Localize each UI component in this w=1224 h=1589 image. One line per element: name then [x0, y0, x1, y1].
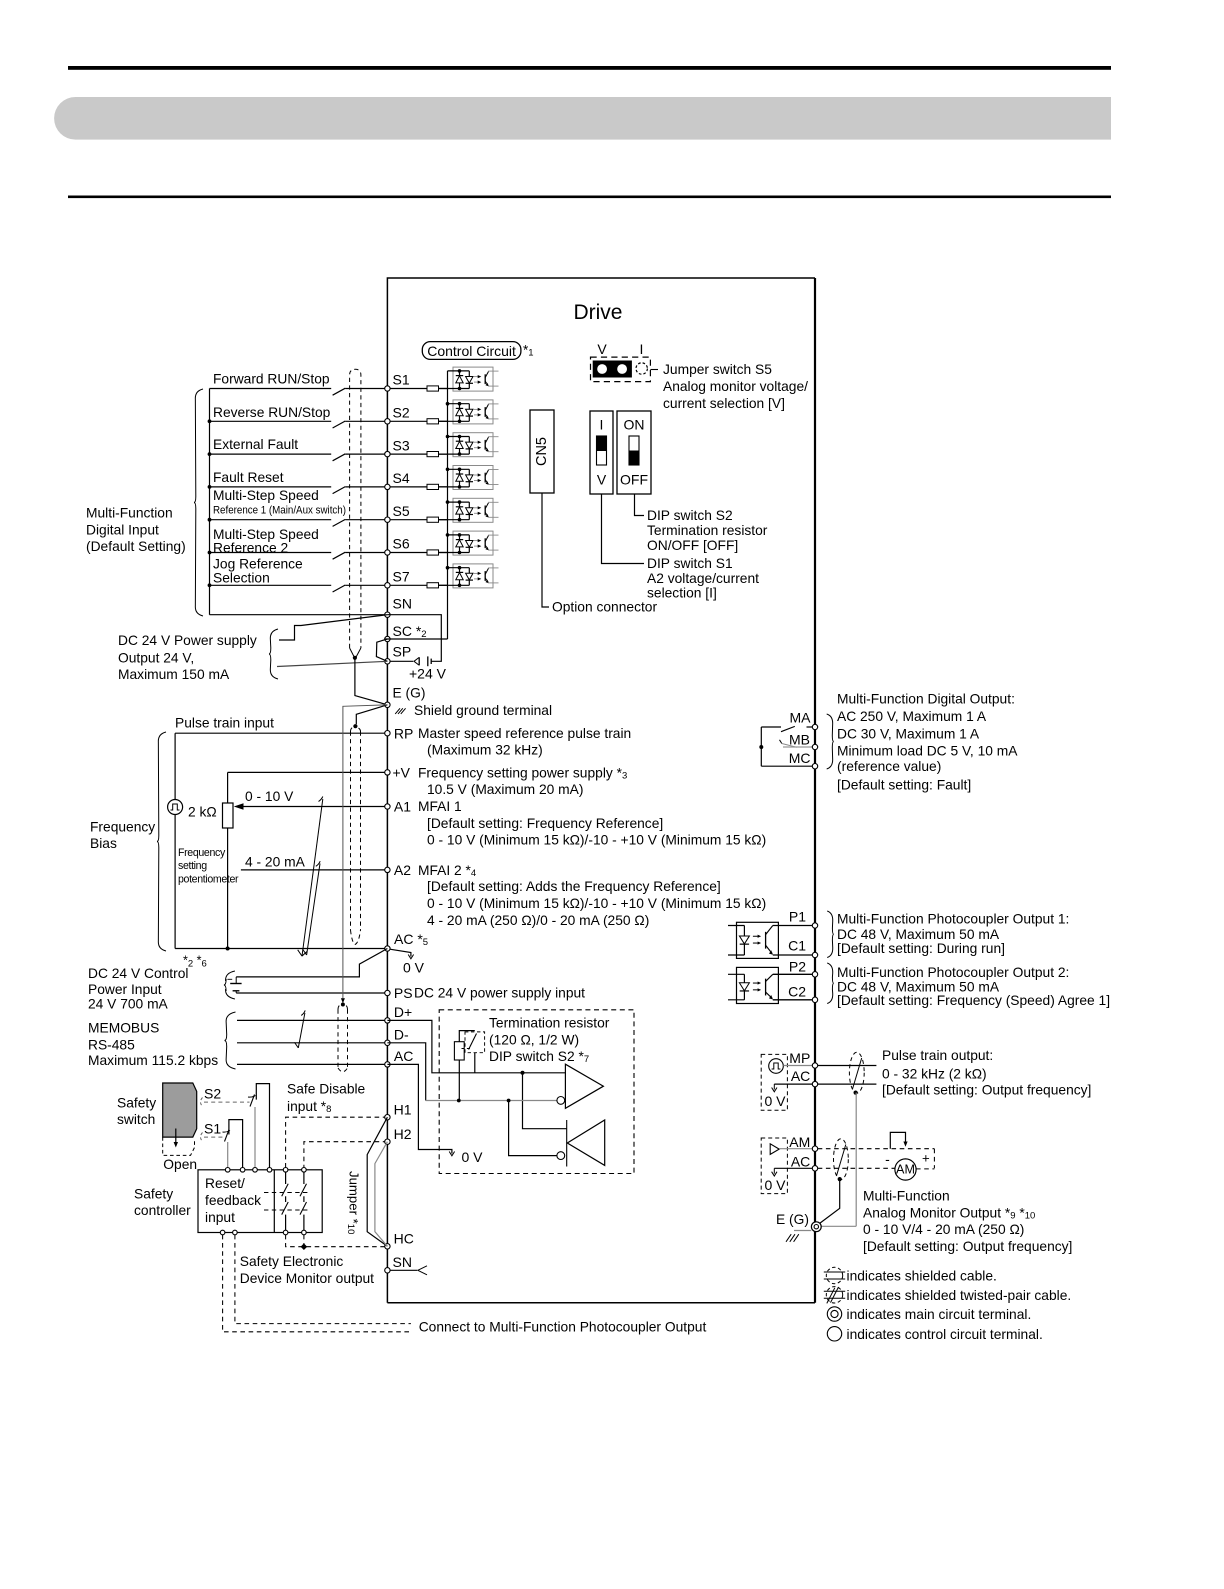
- terminal S5: [385, 517, 390, 522]
- svg-text:Pulse train input: Pulse train input: [175, 716, 274, 731]
- svg-text:D+: D+: [394, 1004, 412, 1020]
- svg-text:Jog Reference: Jog Reference: [213, 557, 303, 572]
- svg-text:-: -: [885, 1151, 890, 1167]
- svg-text:+: +: [922, 1150, 930, 1165]
- svg-text:0 V: 0 V: [765, 1177, 787, 1193]
- svg-text:S3: S3: [393, 437, 410, 453]
- svg-text:Control Circuit: Control Circuit: [427, 343, 516, 359]
- terminal AC analog: [385, 946, 390, 951]
- svg-text:Maximum 150 mA: Maximum 150 mA: [118, 667, 230, 682]
- terminal MP: [812, 1063, 817, 1068]
- wire S1 to optocoupler: [439, 388, 448, 390]
- svg-text:D-: D-: [394, 1026, 409, 1042]
- terminal AC monitor: [812, 1166, 817, 1171]
- dashed wire AM to meter: [818, 1148, 935, 1150]
- terminal SC: [385, 636, 390, 641]
- wire S2 contact to controller (gray): [254, 1107, 256, 1168]
- terminal P2: [812, 972, 817, 977]
- svg-text:E (G): E (G): [776, 1212, 809, 1227]
- wire AC to 0V arrow: [390, 949, 411, 956]
- optocoupler S6: [439, 531, 499, 555]
- svg-text:indicates main circuit termina: indicates main circuit terminal.: [847, 1307, 1032, 1322]
- brace frequency bias: [157, 732, 166, 951]
- input resistor S5: [427, 517, 439, 522]
- svg-text:PS: PS: [394, 985, 413, 1001]
- twisted pair marks analog: [302, 799, 323, 956]
- input resistor S1: [427, 386, 439, 391]
- wire S2 to optocoupler: [439, 420, 448, 422]
- shield capsule RS-485: [338, 1004, 348, 1010]
- wire S1 terminal to resistor: [390, 388, 427, 390]
- brace P2 C2: [827, 963, 834, 1004]
- terminal C2: [812, 997, 817, 1002]
- svg-text:Fault Reset: Fault Reset: [213, 470, 284, 485]
- svg-text:AC: AC: [394, 1048, 413, 1064]
- svg-text:Master speed reference pulse: Master speed reference pulse train: [418, 726, 631, 741]
- svg-text:(Maximum 32 kHz): (Maximum 32 kHz): [427, 742, 543, 757]
- header rule thin: [68, 196, 1111, 199]
- svg-text:0 V: 0 V: [462, 1149, 484, 1165]
- svg-text:0 - 10 V (Minimum 15 kΩ)/-10 -: 0 - 10 V (Minimum 15 kΩ)/-10 - +10 V (Mi…: [427, 896, 766, 911]
- wire DIP S2 leader: [635, 494, 645, 516]
- svg-text:controller: controller: [134, 1203, 191, 1218]
- svg-text:Frequency: Frequency: [178, 847, 226, 859]
- controller terminals bottom: [220, 1230, 225, 1235]
- mechanical link S1 (dashed): [201, 1133, 203, 1142]
- wire AC serial common: [237, 1063, 385, 1065]
- svg-text:Multi-Function: Multi-Function: [86, 505, 173, 520]
- svg-text:A2 voltage/current: A2 voltage/current: [647, 571, 759, 586]
- svg-text:Drive: Drive: [573, 301, 622, 324]
- svg-text:ON: ON: [624, 417, 645, 433]
- safety switch open arrow: [175, 1129, 177, 1144]
- terminal S3: [385, 451, 390, 456]
- shield capsule analog inputs: [351, 727, 361, 732]
- svg-text:S4: S4: [393, 470, 410, 486]
- svg-text:indicates shielded cable.: indicates shielded cable.: [847, 1269, 997, 1284]
- svg-text:Frequency: Frequency: [90, 820, 155, 835]
- jumper wire SC to SP: [376, 639, 387, 661]
- svg-text:MFAI 1: MFAI 1: [418, 799, 462, 814]
- svg-text:Analog monitor voltage/: Analog monitor voltage/: [663, 379, 808, 394]
- terminal D+: [385, 1018, 390, 1023]
- shield capsule analog monitor: [834, 1139, 849, 1180]
- wire S6 to optocoupler: [439, 552, 448, 554]
- wire AM shield drain to E(G): [817, 1179, 840, 1225]
- battery +24V: [390, 660, 414, 662]
- switch blade S6: [333, 552, 346, 559]
- svg-text:MB: MB: [789, 732, 810, 748]
- ground symbol E(G): [794, 1230, 811, 1232]
- svg-text:Multi-Function: Multi-Function: [863, 1189, 950, 1204]
- terminal D-: [385, 1040, 390, 1045]
- svg-text:selection [I]: selection [I]: [647, 586, 717, 601]
- terminal PS: [385, 990, 390, 995]
- wire +V: [228, 771, 385, 773]
- termination resistor 120ohm: [459, 1031, 475, 1042]
- svg-text:MA: MA: [790, 710, 812, 726]
- svg-text:Reset/: Reset/: [205, 1176, 245, 1191]
- svg-text:setting: setting: [178, 860, 207, 872]
- terminal A2: [385, 867, 390, 872]
- wire 24V supply to SP: [277, 661, 387, 666]
- digital input wire S4: [210, 486, 332, 488]
- wire RS-485 shield drain to E(G): [343, 705, 388, 999]
- terminal MB: [812, 744, 817, 749]
- safety switch open outline dashed: [163, 1137, 195, 1155]
- svg-text:ON/OFF [OFF]: ON/OFF [OFF]: [647, 538, 738, 553]
- wire S5 to optocoupler: [439, 519, 448, 521]
- wire D+: [237, 1019, 385, 1021]
- legend twisted pair symbol: [826, 1287, 842, 1303]
- svg-text:External Fault: External Fault: [213, 437, 298, 452]
- wire S5 terminal to resistor: [390, 519, 427, 521]
- svg-text:S1: S1: [393, 372, 410, 388]
- jumper H2 to HC: [375, 1142, 388, 1247]
- control circuit block label: [422, 342, 521, 360]
- svg-text:[Default setting: Output frequ: [Default setting: Output frequency]: [882, 1083, 1091, 1098]
- svg-text:AC: AC: [791, 1153, 810, 1169]
- drive enclosure box: [387, 278, 815, 1303]
- dashed box MP output: [761, 1054, 787, 1110]
- svg-text:(reference value): (reference value): [837, 759, 941, 774]
- controller terminals top: [225, 1168, 230, 1173]
- analog monitor meter AM: [895, 1159, 916, 1180]
- wire S7 to optocoupler: [439, 584, 448, 586]
- wire S4 terminal to resistor: [390, 486, 427, 488]
- digital input wire S3: [210, 453, 332, 455]
- optocoupler common bus to SC: [447, 371, 449, 639]
- jumper over AM meter: [890, 1132, 905, 1148]
- terminal S6: [385, 550, 390, 555]
- photocoupler output 1: [737, 922, 779, 958]
- svg-text:0 - 10 V/4 - 20 mA (250 Ω): 0 - 10 V/4 - 20 mA (250 Ω): [863, 1222, 1024, 1237]
- svg-text:AM: AM: [896, 1163, 915, 1177]
- battery DC24V control: [235, 977, 237, 983]
- wire S4 to optocoupler: [439, 486, 448, 488]
- wire staple S1: [229, 1120, 243, 1168]
- terminal S2: [385, 419, 390, 424]
- header title bar: [54, 97, 1111, 140]
- mechanical link dashed contacts: [264, 1192, 310, 1194]
- svg-text:Minimum load DC 5 V, 10 mA: Minimum load DC 5 V, 10 mA: [837, 744, 1018, 759]
- brace MEMOBUS: [225, 1012, 236, 1069]
- svg-text:P2: P2: [789, 958, 806, 974]
- svg-text:OFF: OFF: [620, 472, 648, 488]
- brace DC 24V power supply: [269, 629, 278, 679]
- brace DC 24V control power: [224, 971, 235, 999]
- shield capsule pulse output: [849, 1052, 864, 1093]
- brace digital input group: [194, 389, 203, 616]
- wire staple S2: [256, 1084, 269, 1168]
- svg-text:CN5: CN5: [534, 437, 550, 466]
- digital input common bus (left): [209, 389, 211, 615]
- terminal H1: [385, 1115, 390, 1120]
- svg-text:I: I: [640, 341, 644, 357]
- safety relay contact chain 2: [303, 1172, 305, 1184]
- wire AM internal: [779, 1148, 812, 1150]
- svg-text:[Default setting: Adds the Fre: [Default setting: Adds the Frequency Ref…: [427, 879, 721, 894]
- terminal SP: [385, 659, 390, 664]
- svg-text:[Default setting: Frequency (S: [Default setting: Frequency (Speed) Agre…: [837, 993, 1110, 1008]
- wire RP: [175, 732, 385, 734]
- svg-text:Multi-Function Photocoupler Ou: Multi-Function Photocoupler Output 1:: [837, 911, 1069, 926]
- svg-text:S6: S6: [393, 536, 410, 552]
- brace P1 C1: [827, 911, 834, 958]
- svg-text:0 - 10 V (Minimum 15 kΩ)/-10 -: 0 - 10 V (Minimum 15 kΩ)/-10 - +10 V (Mi…: [427, 833, 766, 848]
- svg-text:input *8: input *8: [287, 1099, 331, 1115]
- wire AC serial to 0V: [387, 1064, 452, 1153]
- input resistor S6: [427, 550, 439, 555]
- wire PS: [236, 992, 385, 994]
- svg-text:Multi-Function Digital Output:: Multi-Function Digital Output:: [837, 692, 1015, 707]
- terminal MA: [812, 724, 817, 729]
- relay contact MA-MB-MC: [760, 727, 762, 766]
- legend shielded cable symbol: [826, 1267, 842, 1283]
- svg-text:C1: C1: [788, 938, 806, 954]
- wire A1 with arrow: [242, 806, 385, 808]
- pulse monitor symbol MP: [769, 1059, 784, 1074]
- svg-text:[Default setting: Frequency Re: [Default setting: Frequency Reference]: [427, 816, 663, 831]
- svg-text:Shield ground terminal: Shield ground terminal: [414, 703, 552, 718]
- svg-text:S7: S7: [393, 569, 410, 585]
- svg-text:(Default Setting): (Default Setting): [86, 539, 186, 554]
- potentiometer 2k wire top: [227, 772, 229, 803]
- wire DIP S1 leader: [602, 494, 645, 564]
- dashed wire H1 to controller: [286, 1117, 388, 1167]
- wire A2: [241, 869, 385, 871]
- svg-text:DIP switch S2: DIP switch S2: [647, 508, 733, 523]
- DIP switch S2: [617, 411, 651, 494]
- digital input wire S6: [210, 552, 332, 554]
- svg-text:DC 24 V Power supply: DC 24 V Power supply: [118, 633, 257, 648]
- optocoupler S5: [439, 498, 499, 522]
- option connector CN5: [530, 410, 554, 493]
- svg-text:RS-485: RS-485: [88, 1038, 135, 1053]
- terminal SN: [385, 612, 390, 617]
- wire digital shield drain to E(G): [355, 658, 388, 705]
- svg-text:feedback: feedback: [205, 1193, 261, 1208]
- svg-text:[Default setting: During run]: [Default setting: During run]: [837, 941, 1005, 956]
- wire D- branch to receiver input: [509, 1101, 557, 1156]
- terminal E(G) shield ground: [385, 702, 390, 707]
- input resistor S4: [427, 484, 439, 489]
- svg-text:AC 250 V, Maximum 1 A: AC 250 V, Maximum 1 A: [837, 709, 987, 724]
- jumper H1 to HC: [367, 1117, 387, 1246]
- svg-text:DC 48 V, Maximum 50 mA: DC 48 V, Maximum 50 mA: [837, 927, 1000, 942]
- legend control circuit terminal symbol: [827, 1327, 841, 1341]
- svg-text:Digital Input: Digital Input: [86, 522, 159, 537]
- optocoupler S7: [439, 564, 499, 588]
- DIP switch S2 contact: [465, 1032, 485, 1053]
- svg-text:DC 30 V, Maximum 1 A: DC 30 V, Maximum 1 A: [837, 726, 980, 741]
- svg-text:MEMOBUS: MEMOBUS: [88, 1021, 159, 1036]
- svg-text:Device Monitor output: Device Monitor output: [240, 1271, 374, 1286]
- svg-text:P1: P1: [789, 909, 806, 925]
- svg-text:indicates control circuit term: indicates control circuit terminal.: [847, 1327, 1043, 1342]
- svg-text:2 kΩ: 2 kΩ: [188, 805, 217, 820]
- wire S1 contact to controller (gray): [227, 1142, 229, 1168]
- digital input wire S2: [210, 420, 332, 422]
- svg-text:A1: A1: [394, 799, 411, 815]
- wire SN common: [210, 614, 385, 616]
- switch blade S5: [333, 519, 346, 526]
- svg-text:S5: S5: [393, 503, 410, 519]
- svg-text:input: input: [205, 1210, 235, 1225]
- svg-text:Termination resistor: Termination resistor: [647, 523, 768, 538]
- svg-text:SN: SN: [393, 1254, 412, 1270]
- svg-text:DIP switch S1: DIP switch S1: [647, 556, 733, 571]
- svg-text:Selection: Selection: [213, 571, 270, 586]
- ground symbol shield: [395, 708, 405, 714]
- DIP switch S1: [590, 411, 613, 494]
- wire S3 terminal to resistor: [390, 453, 427, 455]
- wire MP internal: [783, 1065, 812, 1067]
- wire S7 terminal to resistor: [390, 584, 427, 586]
- switch blade S1: [333, 388, 346, 395]
- optocoupler S2: [439, 400, 499, 424]
- terminal +V: [385, 770, 390, 775]
- svg-text:current selection [V]: current selection [V]: [663, 396, 785, 411]
- svg-text:Safety: Safety: [134, 1187, 173, 1202]
- safety relay contact chain 1: [285, 1172, 287, 1184]
- optocoupler S1: [439, 367, 499, 391]
- wire D+ branch to receiver: [523, 1073, 567, 1129]
- terminal AC pulse: [812, 1081, 817, 1086]
- wire AC pulse internal to 0V: [774, 1083, 812, 1085]
- wire control power to AC: [236, 949, 387, 977]
- optocoupler S3: [439, 433, 499, 457]
- svg-text:Power Input: Power Input: [88, 982, 162, 997]
- terminal MC: [812, 764, 817, 769]
- dashed wire EDM to photocoupler outputs: [235, 1235, 411, 1324]
- shield capsule digital inputs: [350, 369, 361, 648]
- svg-text:Reference 2: Reference 2: [213, 541, 288, 556]
- svg-text:HC: HC: [394, 1231, 414, 1247]
- terminal P1: [812, 923, 817, 928]
- svg-text:[Default setting: Fault]: [Default setting: Fault]: [837, 777, 971, 792]
- terminal S7: [385, 583, 390, 588]
- contact blade S2: [250, 1095, 255, 1107]
- svg-text:10.5 V (Maximum 20 mA): 10.5 V (Maximum 20 mA): [427, 782, 583, 797]
- contact blade S1: [225, 1130, 230, 1142]
- svg-text:C2: C2: [788, 983, 806, 999]
- wire analog shield drain to E(G): [356, 705, 387, 724]
- safety switch body: [163, 1083, 197, 1137]
- terminal H2: [385, 1139, 390, 1144]
- wire pulse shield drain to E(G): [855, 1093, 857, 1227]
- svg-text:Pulse train output:: Pulse train output:: [882, 1048, 993, 1063]
- terminal RP: [385, 731, 390, 736]
- svg-text:+V: +V: [393, 764, 411, 780]
- potentiometer wire bottom: [227, 828, 229, 949]
- terminal C1: [812, 952, 817, 957]
- svg-text:0 V: 0 V: [403, 960, 425, 976]
- svg-text:V: V: [597, 472, 607, 488]
- svg-text:MFAI 2 *4: MFAI 2 *4: [418, 862, 476, 878]
- svg-text:V: V: [597, 341, 607, 357]
- driver buffer (send): [565, 1064, 603, 1108]
- svg-text:I: I: [600, 417, 604, 433]
- svg-text:+24 V: +24 V: [409, 666, 447, 682]
- svg-text:Connect to Multi-Function Phot: Connect to Multi-Function Photocoupler O…: [419, 1320, 707, 1335]
- svg-text:0 - 32 kHz (2 kΩ): 0 - 32 kHz (2 kΩ): [882, 1067, 987, 1082]
- wire S2 terminal to resistor: [390, 420, 427, 422]
- svg-text:Option connector: Option connector: [552, 600, 657, 615]
- mechanical link S2 (dashed): [201, 1098, 203, 1107]
- receiver buffer: [566, 1120, 568, 1167]
- svg-text:Multi-Step Speed: Multi-Step Speed: [213, 488, 319, 503]
- legend main circuit terminal symbol: [827, 1307, 841, 1321]
- photocoupler output 2: [737, 967, 779, 1003]
- input resistor S3: [427, 452, 439, 457]
- svg-text:Jumper switch S5: Jumper switch S5: [663, 362, 772, 377]
- svg-text:A2: A2: [394, 862, 411, 878]
- svg-text:RP: RP: [394, 725, 413, 741]
- svg-text:0 - 10 V: 0 - 10 V: [245, 789, 294, 804]
- wire AC pulse to load: [818, 1083, 877, 1085]
- wire AC analog common: [175, 948, 385, 950]
- switch blade S4: [333, 487, 346, 494]
- svg-text:Bias: Bias: [90, 836, 117, 851]
- dashed wire EDM to HC: [286, 1235, 385, 1247]
- header rule thick: [68, 66, 1111, 70]
- dashed box termination resistor circuit: [439, 1010, 634, 1174]
- terminal S4: [385, 484, 390, 489]
- terminal AM: [812, 1146, 817, 1151]
- svg-text:Safety Electronic: Safety Electronic: [240, 1254, 344, 1269]
- twisted pair mark RS-485: [298, 1013, 305, 1048]
- svg-text:4 - 20 mA: 4 - 20 mA: [245, 855, 306, 870]
- safety controller box: [198, 1170, 322, 1233]
- svg-text:H1: H1: [394, 1102, 412, 1118]
- svg-text:MC: MC: [789, 750, 811, 766]
- svg-text:SN: SN: [393, 596, 412, 612]
- terminal HC: [385, 1244, 390, 1249]
- svg-text:Analog Monitor Output *9 *10: Analog Monitor Output *9 *10: [863, 1205, 1035, 1221]
- frequency bias bus: [174, 733, 176, 948]
- svg-text:Reverse RUN/Stop: Reverse RUN/Stop: [213, 405, 331, 420]
- svg-text:Frequency setting power supply: Frequency setting power supply *3: [418, 765, 627, 781]
- brace MA MB MC: [827, 714, 834, 769]
- svg-text:Termination resistor: Termination resistor: [489, 1016, 610, 1031]
- wire MP to load: [818, 1065, 877, 1067]
- svg-text:MP: MP: [789, 1050, 810, 1066]
- svg-text:S1: S1: [204, 1120, 221, 1136]
- svg-text:Safety: Safety: [117, 1096, 156, 1111]
- svg-text:Output 24 V,: Output 24 V,: [118, 650, 194, 665]
- svg-text:DC 24 V Control: DC 24 V Control: [88, 966, 188, 981]
- pulse generator source: [168, 800, 183, 815]
- wire D+ to driver: [387, 1020, 565, 1072]
- dashed wire H2 to controller: [304, 1142, 388, 1168]
- svg-text:SP: SP: [393, 643, 412, 659]
- svg-text:H2: H2: [394, 1126, 412, 1142]
- wire D- to driver input: [387, 1043, 425, 1101]
- svg-text:Maximum 115.2 kbps: Maximum 115.2 kbps: [88, 1053, 218, 1068]
- input resistor S7: [427, 583, 439, 588]
- svg-text:Open: Open: [163, 1157, 197, 1172]
- svg-text:Multi-Function Photocoupler Ou: Multi-Function Photocoupler Output 2:: [837, 965, 1069, 980]
- digital input wire S7: [210, 584, 332, 586]
- wire CN5 to option connector label: [542, 493, 549, 607]
- svg-text:indicates shielded twisted-pai: indicates shielded twisted-pair cable.: [847, 1288, 1072, 1303]
- svg-text:(120 Ω, 1/2 W): (120 Ω, 1/2 W): [489, 1033, 579, 1048]
- svg-text:E (G): E (G): [393, 686, 426, 701]
- svg-text:DIP switch S2 *7: DIP switch S2 *7: [489, 1049, 589, 1065]
- switch blade S7: [333, 585, 346, 592]
- wire SN external arrow: [390, 1269, 417, 1271]
